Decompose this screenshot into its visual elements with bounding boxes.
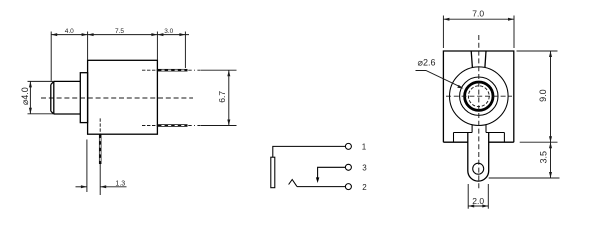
dim 1.3 line right bbox=[100, 186, 126, 188]
barrel chamfer bottom bbox=[51, 111, 54, 114]
top dimension line bbox=[51, 34, 189, 36]
terminal circle 2 bbox=[345, 184, 351, 190]
dim 1.3 extension line bbox=[86, 140, 88, 193]
arrow 7.0 right bbox=[508, 18, 514, 21]
svg-text:2: 2 bbox=[362, 183, 367, 192]
wire terminal 2 bbox=[297, 186, 345, 188]
dim 6.7 arrow up bbox=[227, 70, 230, 76]
svg-text:3.5: 3.5 bbox=[538, 151, 548, 164]
arrow 4.0 left bbox=[51, 33, 57, 36]
dim 9.0 extension bottom bbox=[520, 141, 558, 143]
contact ring (bold) bbox=[465, 82, 493, 110]
dim 1.3 line left bbox=[76, 186, 87, 188]
arrow 2.0 right bbox=[482, 205, 488, 208]
svg-text:9.0: 9.0 bbox=[538, 89, 548, 102]
pin 1 crimped terminal bbox=[157, 69, 188, 72]
arrow 7.0 left bbox=[443, 18, 449, 21]
svg-text:3.0: 3.0 bbox=[164, 28, 173, 35]
step line left bbox=[454, 132, 473, 134]
dim 6.7 extension bottom bbox=[201, 125, 237, 127]
svg-text:⌀4.0: ⌀4.0 bbox=[20, 87, 30, 105]
hole circle dia 2.6 (hidden) bbox=[468, 86, 489, 107]
hidden line bottom pin bbox=[99, 118, 101, 134]
dim 3.5 line bbox=[550, 142, 552, 178]
svg-text:3: 3 bbox=[362, 163, 367, 172]
arrow 2.0 left bbox=[468, 205, 474, 208]
leader dia 2.6 bbox=[416, 71, 462, 88]
arrow 9.0 up bbox=[549, 51, 552, 57]
horizontal centerline bbox=[446, 95, 512, 97]
dim 6.7 dimension line bbox=[228, 70, 230, 125]
pin 1 break line bbox=[188, 69, 200, 71]
terminal circle 3 bbox=[345, 164, 351, 170]
hidden line pin 1 bbox=[142, 69, 157, 71]
centerline axis bbox=[41, 97, 193, 99]
wire terminal 3 with switch arm bbox=[318, 167, 346, 179]
terminal circle 1 bbox=[345, 143, 351, 149]
dim 9.0 line bbox=[550, 51, 552, 142]
arrow 4.0 right bbox=[82, 33, 88, 36]
bushing circle bbox=[460, 77, 498, 115]
boss lug line right bbox=[485, 51, 486, 67]
hidden line pin 2 bbox=[142, 125, 157, 127]
step line right bbox=[486, 132, 504, 134]
barrel bottom edge bbox=[54, 113, 81, 115]
vertical centerline bbox=[478, 35, 480, 190]
dim 7.0 extension left bbox=[442, 16, 444, 49]
svg-text:1: 1 bbox=[362, 142, 367, 151]
pin 2 crimped terminal bbox=[157, 124, 188, 127]
collar bbox=[80, 73, 87, 123]
step vertical right bbox=[503, 133, 505, 143]
tip contact bar bbox=[271, 157, 275, 188]
extension line pin end bbox=[184, 32, 186, 69]
bottom pin crimped terminal bbox=[99, 134, 102, 164]
barrel top edge bbox=[54, 80, 81, 82]
dia 4.0 arrow down bbox=[29, 108, 32, 114]
svg-text:7.0: 7.0 bbox=[472, 9, 484, 19]
svg-text:7.5: 7.5 bbox=[115, 28, 124, 35]
wire tip to terminal 1 bbox=[273, 146, 346, 157]
barrel front face bbox=[50, 85, 52, 112]
extension line body left bbox=[87, 32, 89, 61]
neck right bbox=[485, 125, 487, 133]
neck left bbox=[471, 125, 473, 133]
leader arrow bbox=[457, 85, 463, 89]
step vertical left bbox=[453, 133, 455, 143]
pin 2 break line bbox=[188, 125, 200, 127]
bottom edge left bbox=[443, 141, 467, 143]
dim 9.0 extension top bbox=[517, 50, 558, 52]
dia 4.0 arrow up bbox=[29, 81, 32, 87]
dia 4.0 dimension line bbox=[29, 81, 31, 113]
barrel chamfer top bbox=[51, 81, 54, 84]
bottom edge right bbox=[489, 141, 514, 143]
dim 2.0 line bbox=[468, 205, 488, 207]
arrow 3.5 down bbox=[549, 172, 552, 178]
barrel chamfer edge bbox=[53, 81, 55, 114]
dim 7.0 extension right bbox=[513, 16, 515, 49]
arrow 3.0 left bbox=[157, 33, 163, 36]
dim 1.3 arrow right bbox=[100, 185, 106, 188]
svg-text:⌀2.6: ⌀2.6 bbox=[418, 58, 436, 68]
dia 4.0 extension bottom bbox=[28, 113, 54, 115]
svg-text:6.7: 6.7 bbox=[217, 91, 227, 103]
dim 6.7 arrow down bbox=[227, 120, 230, 126]
dim 2.0 extension right bbox=[487, 184, 489, 209]
body outline bbox=[443, 51, 513, 142]
svg-text:2.0: 2.0 bbox=[472, 196, 484, 206]
dim 7.0 line bbox=[443, 18, 514, 20]
dim 3.5 extension bottom bbox=[489, 177, 560, 179]
switch contact caret bbox=[289, 180, 297, 187]
outer boss circle bbox=[450, 67, 509, 126]
dim 4.0 extension line (barrel tip) bbox=[50, 32, 52, 81]
arrow 7.5 left bbox=[88, 33, 94, 36]
bottom pin wire end bbox=[99, 164, 101, 195]
lug hole bbox=[473, 163, 484, 174]
boss lug line left bbox=[471, 51, 472, 67]
arrow 7.5 right bbox=[151, 33, 157, 36]
extension line body right bbox=[156, 32, 158, 61]
dim 2.0 extension left bbox=[467, 184, 469, 209]
arrow 9.0 down bbox=[549, 136, 552, 142]
dia 4.0 extension top bbox=[28, 80, 54, 82]
body bbox=[88, 60, 158, 134]
arrow switch arm bbox=[316, 177, 319, 183]
sleeve lug outline bbox=[468, 133, 489, 182]
dim 1.3 arrow left bbox=[81, 185, 87, 188]
arrow 3.5 up bbox=[549, 142, 552, 148]
dim 6.7 extension top bbox=[201, 69, 237, 71]
svg-text:4.0: 4.0 bbox=[65, 28, 74, 35]
arrow 3.0 right bbox=[179, 33, 185, 36]
svg-text:1.3: 1.3 bbox=[115, 181, 125, 188]
